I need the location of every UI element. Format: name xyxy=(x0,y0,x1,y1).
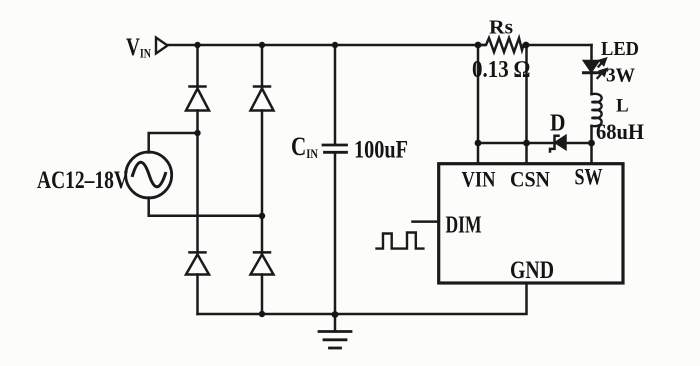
capacitor Cin plates xyxy=(323,144,347,147)
wire AC top terminal xyxy=(149,133,198,153)
wire D4 to bottom rail xyxy=(261,275,264,315)
svg-text:AC12–18V: AC12–18V xyxy=(37,165,128,194)
op IC U1 box xyxy=(439,164,623,283)
diode D3 xyxy=(190,251,206,254)
wire DIM pin stub xyxy=(413,220,439,223)
wire D2 to node B xyxy=(261,111,264,253)
svg-text:DIM: DIM xyxy=(446,212,482,238)
wire LED branch top xyxy=(590,45,593,62)
LED emission arrows xyxy=(598,59,607,78)
capacitor Cin top lead xyxy=(334,45,337,145)
wire Rs right to CSN pin xyxy=(525,45,528,164)
svg-text:68uH: 68uH xyxy=(596,119,644,144)
wire D1 to node A xyxy=(196,111,199,253)
wire LED to inductor xyxy=(590,73,593,94)
AC source V1 circle xyxy=(126,152,172,198)
svg-text:D: D xyxy=(550,111,566,137)
wire freewheel line xyxy=(478,142,592,145)
wire inductor to SW node xyxy=(590,126,593,143)
svg-text:3W: 3W xyxy=(606,65,635,87)
svg-text:L: L xyxy=(616,96,629,117)
svg-text:LED: LED xyxy=(601,38,639,60)
capacitor Cin bottom lead xyxy=(334,153,337,315)
inductor L xyxy=(592,94,602,126)
wire bottom rail xyxy=(198,283,527,314)
svg-text:0.13 Ω: 0.13 Ω xyxy=(472,57,530,83)
node Vin input arrow xyxy=(156,38,168,54)
LED D5 xyxy=(584,61,600,73)
diode D schottky xyxy=(550,136,566,152)
svg-text:CSN: CSN xyxy=(510,167,550,192)
svg-text:VIN: VIN xyxy=(462,167,496,192)
wire Rs left to VIN pin xyxy=(477,45,480,164)
PWM waveform xyxy=(377,233,424,249)
svg-text:SW: SW xyxy=(575,165,603,190)
diode D1 xyxy=(190,85,206,88)
wire D3 to bottom rail xyxy=(196,275,199,315)
wire top rail xyxy=(168,44,485,47)
diode D4 xyxy=(254,251,270,254)
AC source sine wave xyxy=(133,162,166,187)
ground xyxy=(334,315,337,332)
resistor Rs xyxy=(478,38,524,52)
wire AC bottom terminal xyxy=(149,198,262,216)
diode bridge D2 vertical top xyxy=(261,45,264,87)
wire top rail right xyxy=(524,44,592,47)
svg-text:Rs: Rs xyxy=(489,17,513,39)
svg-text:GND: GND xyxy=(510,257,554,284)
diode D2 xyxy=(254,85,270,88)
svg-text:100uF: 100uF xyxy=(354,137,408,164)
wire SW node to SW pin xyxy=(590,143,593,164)
diode bridge D1 vertical top xyxy=(196,45,199,87)
